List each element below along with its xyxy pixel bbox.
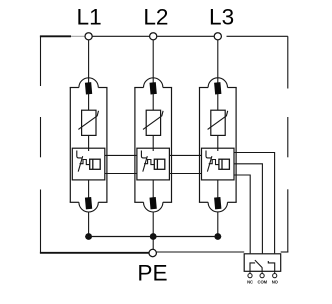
varistor, module 3: [208, 110, 228, 135]
node L1: terminal circle on top bus: [85, 33, 92, 40]
disconnector with indicator, module 3: symbol: [206, 148, 229, 171]
varistor, module 2: [143, 110, 163, 135]
wire: remote signal NO (module 3 to drop): [234, 153, 275, 254]
wire: indicator chain top, module 2 to module 3: [169, 154, 201, 156]
node L2: terminal circle on top bus: [150, 33, 157, 40]
wire: indicator chain bottom, module 2 to module 3: [169, 173, 201, 175]
disconnector with indicator, module 2: symbol: [141, 148, 164, 171]
disconnector with indicator, module 1: box: [72, 148, 105, 180]
wire: module 2 to PE bus: [152, 212, 154, 234]
enclosure border: left side (dashed): [40, 36, 42, 253]
disconnector with indicator, module 3: box: [202, 148, 235, 180]
enclosure border: right side (dashed): [287, 36, 289, 252]
svg-text:NC: NC: [247, 280, 253, 285]
PE bus wire: [85, 236, 221, 238]
junction dot: module 3 on PE bus: [214, 233, 221, 240]
remote signalling contact: NC fixed contact: [250, 263, 255, 271]
thermal disconnect bottom, module 1: fuse bar: [85, 197, 92, 209]
svg-text:PE: PE: [137, 261, 167, 286]
wire: module 1 to PE bus: [88, 212, 90, 234]
node L3: terminal circle on top bus: [214, 33, 221, 40]
thermal disconnect bottom, module 3: fuse bar: [214, 197, 221, 209]
wire: PE bus to PE terminal: [152, 239, 154, 249]
thermal disconnect top, module 2: plug arc: [144, 78, 163, 88]
wire: fuse to varistor, module 2: [152, 94, 154, 111]
disconnector with indicator, module 1: symbol: [77, 148, 100, 171]
wire: disconnector to bottom fuse, module 1: [88, 180, 90, 199]
svg-text:L3: L3: [209, 5, 234, 30]
thermal disconnect top, module 3: fuse bar: [214, 82, 221, 94]
wire: fuse to varistor, module 1: [88, 94, 90, 111]
disconnector with indicator, module 2: box: [137, 148, 170, 180]
thermal disconnect bottom, module 2: plug arc: [144, 202, 163, 212]
wire: L3 drop into module 3: [217, 40, 219, 84]
thermal disconnect top, module 3: plug arc: [208, 78, 227, 88]
wire: L1 drop into module 1: [88, 40, 90, 84]
SPD module 1: enclosure box: [70, 88, 108, 203]
wire: disconnector to bottom fuse, module 2: [152, 180, 154, 199]
wire: module 3 to PE bus: [217, 212, 219, 234]
remote signalling contact: COM stub: [261, 268, 263, 272]
wire: remote signal NC (module 3 to drop): [234, 175, 250, 253]
thermal disconnect top, module 2: fuse bar: [150, 82, 157, 94]
terminal NO: stub and circle: [274, 271, 276, 273]
svg-text:L2: L2: [143, 5, 168, 30]
wire: varistor to disconnector, module 1: [88, 135, 90, 148]
wire: varistor to disconnector, module 2: [152, 135, 154, 148]
junction dot: module 2 on PE bus: [150, 233, 157, 240]
wire: disconnector to bottom fuse, module 3: [217, 180, 219, 199]
wire: L2 drop into module 2: [152, 40, 154, 84]
thermal disconnect bottom, module 1: plug arc: [79, 202, 98, 212]
thermal disconnect bottom, module 2: fuse bar: [149, 197, 156, 209]
wire: remote signal COM (module 3 to drop): [234, 164, 263, 254]
remote signalling contact: switch blade: [255, 260, 262, 268]
terminal COM: stub and circle: [261, 271, 263, 273]
thermal disconnect top, module 1: plug arc: [79, 78, 98, 88]
node PE: terminal circle on bottom border: [149, 249, 156, 256]
remote signalling contact: NO fixed contact: [268, 261, 274, 271]
wire: indicator chain bottom, module 1 to module 2: [105, 173, 137, 175]
wire: indicator chain top, module 1 to module 2: [105, 154, 137, 156]
enclosure border: bottom edge: [40, 251, 288, 254]
wire: fuse to varistor, module 3: [217, 94, 219, 111]
terminal NC: stub and circle: [249, 271, 251, 273]
svg-text:L1: L1: [77, 5, 102, 30]
remote signalling changeover contact: box: [244, 254, 281, 271]
SPD module 2: enclosure box: [134, 88, 172, 203]
junction dot: module 1 on PE bus: [85, 233, 92, 240]
varistor, module 1: [78, 110, 98, 135]
wire: varistor to disconnector, module 3: [217, 135, 219, 148]
thermal disconnect top, module 1: fuse bar: [85, 82, 92, 94]
enclosure border: top edge / phase bus wire: [40, 35, 288, 37]
SPD module 3: enclosure box: [199, 88, 237, 203]
thermal disconnect bottom, module 3: plug arc: [208, 202, 227, 212]
svg-text:NO: NO: [272, 280, 279, 285]
svg-text:COM: COM: [258, 280, 268, 285]
